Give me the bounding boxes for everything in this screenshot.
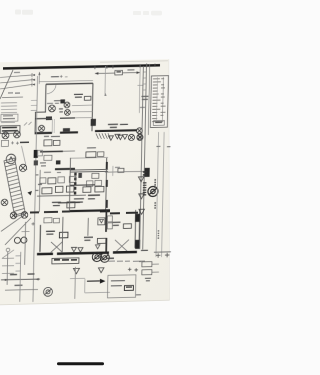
left col marks b [35,189,38,191]
south label text [54,258,77,261]
room1 lower-left wall stub [35,111,46,113]
legend dark cell [124,285,133,290]
table row line 4 [1,112,17,114]
dimension arrow D3 [32,82,35,86]
corridor lower wall east [60,131,78,133]
south dim tick text 3 [15,270,20,272]
title block divider 2 [156,77,159,120]
room2 divider wall [70,184,95,187]
west small box [1,140,8,146]
room1 outlet O3 [64,102,70,108]
hall label text [44,135,60,138]
court line v1 [74,267,77,299]
room1 left wall [44,84,47,112]
garage cross X [51,242,63,253]
corridor2 line [70,156,108,159]
room1 fixture line 2 [72,111,93,113]
east vent V4 [138,177,144,182]
terrace outlet O10 [128,134,134,140]
east wall window ticks [143,72,146,90]
home indicator [57,362,104,365]
east vent V6 [139,209,145,214]
entry arrow [87,280,100,282]
east wall jog marks [143,172,147,175]
west plus marks [11,141,19,144]
jamb blob [78,173,82,178]
east vent V5 [139,194,145,199]
wall junction blob [91,119,96,126]
status bar time (faint) [15,10,33,15]
corr2 text UFF3 [87,147,96,149]
entry arrow head [100,279,106,284]
garage right wall [61,217,64,252]
mid wall blob east [100,209,110,212]
kitchen label CUCINA [108,124,128,127]
east dim rail 1 [156,132,159,257]
room2 label box E [83,187,91,193]
dining window blob 2 [135,240,140,249]
terrace vent V3b [118,135,123,140]
south dim text 2.85 [10,274,17,276]
east label tick a [152,263,159,265]
east marks lower [145,278,151,281]
room2 lower texts [74,198,95,202]
court line v2 [84,279,86,293]
legend text rows [111,281,125,286]
court line h1 [70,277,85,279]
dining left wall upper [105,210,107,232]
dimension arrow D2 [32,78,35,82]
kitchen top wall [95,129,137,132]
hall label box H2 [53,140,60,145]
photo paper sheet [0,59,170,304]
left outlet O12 [1,199,8,206]
room1 outlet O4 [65,109,71,115]
hall label box H3 [44,155,52,160]
south dim tick 1 [2,257,14,259]
vent tri B [78,248,83,253]
south dim vertical [6,252,9,285]
kitchen wall hatching [96,133,111,139]
corridor upper wall west [35,117,52,119]
bath row1 text above [44,171,61,174]
title block left rail [148,64,149,135]
paper bottom edge shadow [0,300,170,305]
room1 west tie ticks [31,100,37,110]
east rotated dim text 2 [154,203,156,208]
terrace right dim line [138,65,141,113]
top border hanging ticks [95,64,155,70]
property boundary diagonal NW [0,70,13,99]
room1 label line2 [54,100,65,102]
terrace vent V3 [108,136,113,141]
garage label box [59,232,68,238]
bath fixtures [40,163,46,166]
west tick [21,231,29,233]
room2 lower wall [37,195,86,196]
hatched wall center [74,173,77,195]
room1 right wall [91,83,94,131]
kitchen2 top wall [58,201,80,203]
property line west [33,76,38,302]
room1 top wall [46,82,93,85]
stair arrow head [27,191,32,196]
room2 label box C [55,186,63,192]
reference circle A [6,154,16,164]
paper top edge [100,61,168,62]
south dim arrow a [5,279,8,281]
room1 label box 30 [84,96,91,100]
terrace dim arrow right [137,71,140,74]
legend dark cell text [126,286,132,288]
terrace dim line [95,72,140,75]
corridor outlet O5 [38,125,44,131]
dim 150 text [139,260,145,262]
legend lower text row [108,260,145,262]
garage small label 1 [44,218,52,223]
kitchen outlet O6 [136,128,142,134]
hall marker triangle [56,160,61,164]
outlet symbol O2 [14,131,21,138]
dining door swing X [115,240,129,253]
kitchen vent V2 [122,135,127,140]
title block scale cell [153,121,164,126]
garage small label 2 [53,218,59,223]
legend label text L1 [2,127,18,131]
room2 label box F [95,186,104,192]
stair mid outlet O13 [19,164,26,171]
room1 small text [47,102,59,104]
center spine wall [69,158,70,212]
terrace dim label box [115,70,123,75]
east rotated dim text 1 [154,180,156,188]
south property line 2 [20,252,21,302]
hall wall thin ext [63,150,75,152]
terrace dim arrow left [95,72,98,75]
title block scale text [155,121,162,123]
court vent tri [73,268,79,274]
lower rooms top wall B [70,170,108,173]
court line h2 [85,291,110,294]
table row line 2 [1,105,17,107]
dimension line left D4 [2,96,23,98]
corridor door jamb a [51,119,53,133]
hall small box [37,150,42,156]
title block rows [152,79,166,122]
room2 lower wall b [88,194,100,196]
south dim tick text 2 [15,262,20,264]
east dim text a [156,145,160,147]
room1 west wall lower [34,112,36,134]
center wall seg 2 [106,180,108,187]
dining right wall line1 [134,210,137,248]
room1 fixture line 1 [72,104,93,106]
table row line 5 [1,121,15,123]
south dim text 3.9 [27,273,34,275]
east dim rail 2 [162,132,165,257]
status bar right icons (faint) [133,11,162,16]
south wall east [113,251,137,254]
room1 outlet O3b [49,105,56,112]
stairwell box [98,218,105,225]
room1 door swing [47,84,56,93]
lower rooms top wall A [70,168,108,171]
hall wall [40,150,63,152]
title block divider [162,77,165,120]
terrace dim second text [127,69,134,71]
double circle symbol [14,237,27,243]
dining top wall seg a [110,212,120,214]
dimension line left D1 [0,75,32,77]
drain swirl S2 [100,253,109,262]
south dim tick 2 [2,265,14,267]
south main dim line [1,278,40,281]
east rotated text c [158,231,160,238]
staircase band [3,158,27,217]
height note h=2.70 [141,96,148,99]
diagonal dim line 1 [1,214,25,231]
dimension text 170 [14,71,20,73]
dining label PRANZO [112,222,120,225]
room3 text p5 [38,183,42,185]
dining left wall lower [105,238,107,253]
dimension arrow D1 [32,73,35,77]
mid wall segment w2 [44,211,58,213]
manhole swirl [148,186,158,196]
south dim tick 3 [2,272,14,274]
table cell text [3,116,15,119]
stair outlet O8 [10,212,17,219]
dining top wall seg b [126,212,138,214]
west wall lower v [24,222,27,265]
east label tick b [152,271,159,273]
upper center dim line [104,66,107,96]
floor hatch ticks [24,122,32,126]
paper right edge shadow [168,59,171,300]
south dim arrow b [35,278,38,280]
east wall dash stack [143,183,147,195]
table row line 3 [1,108,17,110]
uff4 label box [97,238,106,243]
east wall window blob [145,168,150,177]
room1 dim rail arrow [38,72,40,75]
uff4 label [84,237,93,240]
center wall seg 1 [106,162,108,169]
room1 fixture marks [59,109,63,112]
room1 fixture line 3 [72,117,93,119]
garage left wall [39,225,42,252]
corridor lower wall west [35,132,52,134]
legend frame [107,275,135,298]
dining closet box 2 [107,223,112,229]
south second dim text [14,284,22,286]
terrace bottom line [105,170,146,173]
bath box row1 b [48,178,56,184]
left col marks a [35,174,38,176]
room1 label UFF.2 SERVIZI [74,94,83,97]
east wall corner [141,249,148,251]
corridor door jamb b [53,119,55,133]
drain swirl S1 [92,252,101,261]
stairwell tri [99,219,103,223]
right small note [140,106,145,108]
upper center dim arrow [104,93,106,96]
west wall window blob 2 [34,160,38,165]
kitchen2 label box [67,202,75,208]
diagonal dim line 2 [5,218,31,245]
mid wall segment w1 [30,211,39,213]
kitchen vent V1 [115,134,120,139]
stair outlet O9 [21,212,28,219]
staircase treads [3,160,26,215]
east plus marks [156,253,170,258]
room2 label box B [92,173,99,178]
corr2 label box [86,152,96,158]
bath wall [55,168,75,170]
east wall line inner [140,66,144,249]
room1 dim line [39,81,93,82]
dimension line left D3 [0,84,32,88]
room1 dim text UFF [51,76,59,78]
court vent tri b [98,268,104,273]
room1 marker triangle [60,99,65,103]
terrace dim tick v [112,166,114,176]
dimension line left D2 [0,80,32,83]
center wall seg 3 [106,200,108,208]
room1 dim rail [38,72,40,84]
south wall mid [57,253,109,254]
stair handrail line [21,146,27,170]
room2 label box D [66,186,74,192]
mid thick wall [70,209,110,212]
south label box [52,258,79,264]
garage plus mark [31,222,34,225]
corridor wall blob [63,128,70,132]
diagonal dim line 3 [2,250,14,258]
south swirl S3 [43,287,52,296]
dining right wall line2 [138,210,141,248]
south dim tick text 1 [15,255,20,257]
center wall v [106,158,107,210]
room2 label box A [69,176,76,182]
inner wall left v [38,170,41,212]
east wall line outer [143,63,147,249]
terrace outlet O11 [137,134,143,140]
east dim end tick 1 [154,251,171,253]
west wall window blob 1 [34,150,38,158]
corridor upper wall east [60,117,75,119]
south second dim line [5,288,38,291]
corridor door blob [46,116,52,120]
terrace dim text [115,166,120,168]
top small plus marks [60,75,68,78]
below legend marks [136,294,141,296]
hall label box H1 [44,140,52,146]
east label box 18b [142,270,152,275]
dining window blob 1 [135,214,140,222]
plus mark pair [128,267,138,271]
table row line 1 [1,102,17,104]
vent tri A [71,247,76,252]
title block frame [150,76,168,128]
dining closet box 1 [107,216,112,222]
legend label box L1 [0,126,20,134]
uff4 jamb line [87,218,89,236]
floor plan drawing (sheared to match photo tilt) [0,61,175,303]
terrace dim label text [116,71,121,73]
terrace right dim tick [137,84,143,86]
kitchen2 text [52,202,61,205]
app background [0,0,173,375]
dining label box [123,224,131,229]
garage label POSTO [46,231,55,234]
mid wall segment w3 [62,210,70,212]
south wall west [37,253,53,256]
kitchen outlet O7 [137,134,143,140]
sez text [106,257,114,259]
east label box 18a [142,262,152,267]
dim origin circle [6,248,10,252]
dimension text D4 [8,92,20,95]
center box r2a [86,181,93,187]
bath box row1 a [40,178,46,184]
terrace corner box [118,168,124,172]
room3 label box [42,188,52,194]
west dark dash [20,141,29,143]
east dim text b [167,146,171,148]
table cell box [1,114,18,121]
sheet top border line [3,65,160,68]
bath box row1 c [58,177,65,183]
center box r2b [95,180,102,186]
outlet symbol O1 [2,132,9,139]
corr2 label box b [97,152,104,157]
uff4 small tri [95,245,100,249]
